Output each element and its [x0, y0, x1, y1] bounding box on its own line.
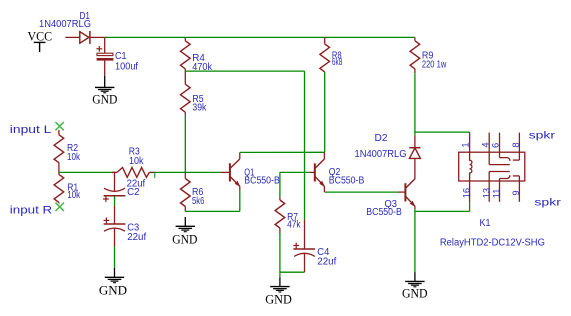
ground GND4 under R7 — [279, 272, 281, 277]
wire R5 to base wire — [184, 115, 186, 172]
relay K1 coil — [470, 152, 472, 181]
svg-text:47k: 47k — [287, 219, 301, 230]
resistor R8 — [324, 37, 326, 44]
svg-text:GND: GND — [265, 293, 292, 307]
capacitor C3 — [114, 206, 116, 224]
diode D1 — [80, 32, 89, 44]
resistor R9 — [414, 37, 416, 40]
svg-text:VCC: VCC — [28, 30, 53, 44]
svg-text:BC550-B: BC550-B — [366, 207, 402, 218]
diode D2 — [414, 135, 416, 148]
no-connect X input R — [56, 203, 64, 211]
relay pin 16 — [469, 181, 471, 202]
transistor Q2 — [314, 163, 316, 181]
svg-text:spkr: spkr — [529, 130, 556, 141]
svg-text:11: 11 — [491, 189, 502, 199]
svg-text:8: 8 — [510, 142, 521, 147]
capacitor C1 — [104, 37, 106, 53]
svg-text:10k: 10k — [129, 156, 144, 167]
svg-text:220 1w: 220 1w — [422, 59, 447, 70]
svg-text:10k: 10k — [67, 152, 80, 163]
relay pin 9 fixed contact b — [518, 176, 520, 202]
svg-text:BC550-B: BC550-B — [244, 176, 280, 187]
wire Q3 emitter to relay pin 16 — [415, 210, 470, 212]
svg-text:input R: input R — [10, 205, 53, 217]
svg-text:BC550-B: BC550-B — [329, 176, 365, 187]
resistor R1 — [58, 172, 60, 174]
svg-text:input L: input L — [10, 124, 52, 136]
wire R3 to Q1 base — [155, 171, 221, 173]
wire Q2 collector — [323, 152, 325, 159]
svg-text:GND: GND — [99, 283, 127, 297]
ground GND5 under Q3 — [414, 272, 416, 281]
ground GND3 under C3 — [114, 268, 116, 278]
wire R9 to relay and D2 — [414, 73, 416, 132]
transistor Q1 — [229, 163, 231, 181]
svg-text:GND: GND — [172, 232, 197, 246]
ground GND1 under C1 — [104, 76, 106, 88]
svg-text:22uf: 22uf — [317, 257, 336, 268]
svg-text:100uf: 100uf — [115, 61, 138, 72]
svg-text:D2: D2 — [375, 133, 388, 144]
svg-text:10k: 10k — [67, 190, 80, 201]
svg-text:RelayHTD2-DC12V-SHG: RelayHTD2-DC12V-SHG — [440, 237, 545, 248]
wire Q1 collector — [239, 152, 241, 159]
svg-text:GND: GND — [402, 287, 428, 301]
relay K1 body — [459, 152, 525, 181]
wire R8 to Q2 collector — [324, 72, 326, 152]
wire R4-R5 junction to C4 column — [185, 70, 304, 72]
wire R7 C4 ground rail — [280, 271, 305, 273]
svg-text:39k: 39k — [192, 102, 206, 113]
capacitor C4 — [304, 219, 306, 249]
relay pin 1 — [469, 132, 471, 152]
wire end tick — [154, 173, 156, 178]
capacitor C2 — [114, 172, 116, 190]
resistor R4 — [184, 37, 186, 40]
resistor R5 — [184, 71, 186, 84]
resistor R6 — [184, 172, 186, 178]
svg-text:1N4007RLG: 1N4007RLG — [355, 149, 407, 160]
svg-text:GND: GND — [92, 92, 117, 106]
wire input junction to R3 — [59, 171, 115, 173]
wire Q1 emitter to R6 ground rail — [239, 186, 241, 190]
svg-text:spkr: spkr — [534, 197, 561, 208]
svg-text:K1: K1 — [480, 218, 491, 229]
relay pin 6 moving contact a — [499, 133, 501, 158]
svg-text:16: 16 — [460, 188, 471, 198]
svg-text:22uf: 22uf — [127, 232, 146, 243]
wire VCC to D1 anode — [65, 36, 80, 38]
svg-text:9: 9 — [510, 190, 521, 195]
relay pin 11 moving contact b — [499, 179, 501, 202]
no-connect X input L — [55, 122, 63, 130]
svg-text:1N4007RLG: 1N4007RLG — [39, 19, 91, 30]
resistor R7 — [279, 172, 281, 197]
relay pin 4 common contact a — [488, 133, 490, 165]
wire top rail VCC net — [105, 36, 415, 38]
svg-text:C2: C2 — [127, 187, 139, 198]
transistor Q3 — [404, 183, 406, 201]
wire Q2 emitter to Q3 base — [323, 186, 325, 192]
wire C4 column from divider — [304, 71, 306, 219]
relay pin 13 common contact b — [488, 172, 490, 202]
svg-text:6k8: 6k8 — [332, 57, 343, 68]
svg-text:5k6: 5k6 — [192, 196, 205, 207]
wire Q3 emitter to ground — [414, 211, 416, 272]
resistor R3 — [112, 171, 117, 173]
resistor R2 — [58, 130, 60, 135]
ground GND2 under R6 — [184, 217, 186, 226]
svg-text:6: 6 — [490, 143, 501, 148]
svg-text:1: 1 — [459, 142, 470, 147]
relay pin 8 fixed contact a — [518, 133, 520, 161]
